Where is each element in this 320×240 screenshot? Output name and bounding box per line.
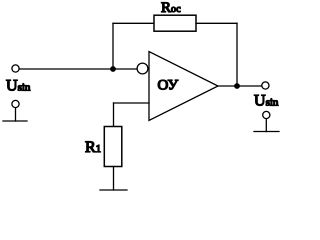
svg-text:ОУ: ОУ [158, 78, 179, 94]
wire op-amp output [218, 85, 262, 87]
node input junction [110, 66, 116, 72]
wire input ground stub [15, 108, 17, 121]
ground bar input [3, 120, 27, 122]
inverting input bubble [137, 63, 148, 74]
wire down to R1 [113, 103, 115, 127]
resistor R1 [104, 127, 122, 167]
terminal circle output signal [262, 82, 269, 89]
wire junction to inverting bubble [113, 68, 137, 70]
wire feedback riser left [112, 23, 114, 69]
wire feedback top right [196, 22, 237, 24]
wire feedback riser right [236, 23, 238, 86]
ground bar R1 [100, 189, 127, 191]
ground bar output [254, 131, 279, 133]
wire R1 to ground [113, 167, 115, 191]
wire non-inverting input [114, 102, 150, 104]
terminal circle input signal [12, 65, 19, 72]
wire input to junction [20, 68, 113, 70]
op-amp U1 triangle [149, 52, 218, 121]
terminal circle input ground [12, 100, 19, 107]
resistor Roc [154, 15, 196, 31]
terminal circle output ground [263, 111, 270, 118]
node output junction [234, 83, 240, 89]
wire output ground stub [265, 119, 267, 132]
wire feedback top left [113, 22, 154, 24]
